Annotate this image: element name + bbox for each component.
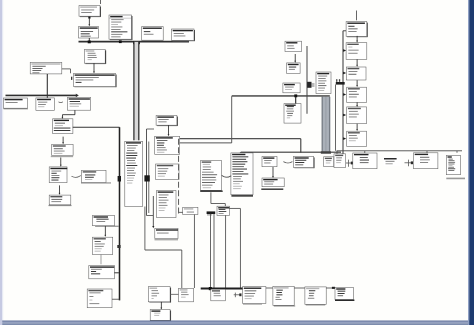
table box B44 — [293, 156, 314, 168]
arrow B27 to B28 — [356, 102, 358, 105]
wire: drop x300.8 to y152.5 — [300, 139, 302, 153]
arrow B5 to wide box W6 — [93, 63, 95, 72]
shadow under B15 — [4, 108, 28, 110]
wire: drop B2 to main bus — [88, 38, 90, 42]
dark shadow line under B63 rows — [335, 299, 354, 301]
shadow line under B37 — [155, 239, 179, 241]
table box B56 — [148, 287, 170, 303]
junction knot on bus at x120 — [119, 40, 122, 43]
arrow B9 to B10a — [294, 54, 296, 61]
table box B28 — [347, 107, 367, 124]
small dark box B40 — [207, 211, 216, 214]
arrowhead into B14 — [343, 72, 346, 75]
arrow B13 to B14 — [356, 60, 358, 66]
arrow B56 to B57 — [160, 302, 162, 308]
table box B18 — [53, 119, 73, 134]
shadow line under B51 — [446, 177, 465, 179]
table box B10b — [283, 83, 300, 93]
table box B31 — [82, 170, 107, 182]
table box B34 — [92, 237, 112, 254]
main bus horizontal line y41 — [79, 41, 190, 43]
bus horizontal line y95 left segment with arrow — [6, 94, 77, 96]
table box B54 — [89, 266, 115, 279]
table box B19 — [52, 144, 74, 155]
hook at left end of y152.2 wire — [239, 152, 241, 154]
second vertical wire x148.8 — [148, 142, 150, 214]
table box B29 — [347, 131, 367, 146]
table box B61 — [273, 286, 294, 305]
borderless text block B49 — [384, 158, 402, 167]
arrow B43 to B46 — [272, 167, 274, 177]
dark junction at bar bottom — [321, 151, 331, 154]
crow-foot connector into B42 left edge — [222, 175, 232, 177]
double vertical wires x134/x139 — [134, 42, 139, 141]
drop to B51 — [456, 151, 458, 153]
horizontal wire y150.8 for bottom-right row — [337, 150, 463, 152]
dark overlay segment of connector bar — [201, 288, 244, 290]
table box B41 — [217, 206, 229, 215]
arrow B12 to B13 — [356, 36, 358, 41]
left window edge strip — [0, 0, 2, 325]
elbow bottom of x146.5 wire — [147, 215, 154, 217]
table box B36 — [157, 191, 177, 218]
arrowhead into B13 — [343, 49, 346, 52]
junction knot on connector bar — [209, 287, 212, 290]
table box B16 — [36, 98, 54, 110]
arrow B28 to B29 — [356, 124, 358, 130]
table box B48 — [353, 153, 377, 169]
wire: B41 right to drop x240.4 — [229, 207, 240, 209]
wire: B20 bottom elbow to bottom row — [144, 207, 146, 251]
wire: x178.6 to B39 — [179, 211, 183, 213]
relation glyph between B30 and B31 — [72, 176, 81, 178]
wire: B17 bottom elbow to B18 — [74, 110, 76, 115]
grey double bar (thick vertical bus) — [322, 97, 330, 153]
long vertical wire x119.5 — [119, 127, 121, 300]
table box B46 — [262, 178, 284, 187]
table box B62 — [305, 287, 326, 304]
table box B37 dark title — [155, 228, 178, 238]
arrow to B37 — [152, 196, 154, 227]
table box B3 — [109, 15, 132, 40]
shadow line under B32 — [49, 205, 72, 207]
junction dot under B1 — [88, 17, 90, 19]
wire: elbow from B38 underline down and right to B41 top — [210, 192, 212, 203]
junction knot on bus at x295.5 — [294, 94, 297, 97]
tiny dark box B23 on wire — [307, 82, 311, 88]
wire: B33 bottom to vertical x118.5 — [95, 225, 118, 227]
relation glyph between B16 and B17 — [59, 101, 63, 104]
arrowhead into B28 — [343, 114, 346, 117]
tall table box B11 — [316, 72, 331, 94]
arrow B19 to B30 — [60, 158, 62, 166]
arrow B14 to B27 — [356, 80, 358, 85]
wire: B34 to B54 — [100, 255, 102, 265]
cardinality junction glyph left of B27 — [336, 82, 345, 85]
table box B15 — [3, 98, 27, 108]
knot on vertical x119.5 — [118, 176, 121, 182]
shadow line under B19 — [51, 156, 73, 158]
table box B1 — [79, 6, 101, 18]
shadow under B61 — [274, 305, 295, 307]
table box B27 — [347, 87, 367, 102]
table box B13 — [346, 43, 367, 60]
tall table box B20 — [125, 141, 143, 206]
left bracket vertical wire x343 — [342, 31, 344, 160]
arrowhead into B29 — [343, 137, 346, 140]
table box B51 — [446, 155, 460, 174]
table box B30 — [49, 167, 67, 183]
table box B35 — [156, 164, 179, 180]
table box B50 — [414, 153, 438, 169]
table box BB — [243, 287, 266, 304]
arrow B18 to B19 — [62, 137, 64, 143]
shadow line under B31 — [81, 182, 111, 184]
table box B63 — [335, 287, 353, 299]
table box B43 — [262, 157, 277, 167]
table box B17 — [67, 97, 90, 110]
arrowhead into B27 — [343, 93, 346, 96]
arrow B21 to B22 — [168, 125, 170, 134]
long drop wires to bottom row — [193, 215, 195, 289]
drop to B47 — [336, 151, 338, 154]
table box B39 — [183, 207, 198, 214]
table box B9 — [285, 41, 302, 51]
wire: B22 top-right long horizontal y138.7 — [180, 138, 301, 140]
table box B24 — [284, 104, 301, 124]
crow-foot bracket before B48 — [346, 162, 353, 164]
right window border navy strip — [468, 0, 469, 325]
vertical wire x146.5 — [146, 129, 148, 216]
knot on x146.5 wire — [144, 175, 149, 181]
crow-foot bracket before BB — [234, 294, 242, 296]
stub wire above B12 — [356, 11, 358, 21]
bottom row connector bar — [243, 287, 334, 289]
table box B14 — [346, 67, 366, 80]
table box B59 — [211, 289, 226, 301]
table box B55 — [87, 289, 112, 308]
shadow under B62 — [306, 304, 325, 306]
wire: B18 right to long vertical x119.5 — [73, 126, 120, 128]
wire: bus down into B24 — [295, 97, 297, 104]
wire: BT bottom down to bus y95 — [46, 74, 48, 95]
junction knot on bus at x89 — [88, 40, 91, 43]
table box B22 — [155, 136, 180, 154]
table box B12 — [346, 22, 367, 37]
table box B21 — [156, 116, 177, 127]
drop to B48 — [364, 151, 366, 153]
wire: B22 right elbow y142.9 up to bus y95.9 — [180, 142, 232, 144]
stub from bus down to B16 top — [46, 95, 48, 98]
table box B10a — [287, 63, 301, 74]
arrow B33 to B34 — [104, 226, 106, 235]
elbow top of x146.5 wire — [147, 128, 155, 130]
dark shadow line under B38 — [200, 190, 223, 192]
top edge stray tick — [100, 0, 102, 4]
vertical wire x335.5 down from junction — [335, 85, 337, 151]
table box B5 — [84, 49, 105, 64]
long vertical wire x178.6 (dashed) — [178, 139, 180, 214]
junction knot on bus at x134-139 — [133, 41, 140, 44]
tick from vertical x119.5 to box B55 — [111, 298, 119, 300]
dark shadow line under B46 — [261, 188, 283, 190]
table box B33 — [92, 215, 114, 225]
shadow under BB — [243, 303, 262, 305]
table box BA — [179, 288, 194, 302]
table box B7 — [142, 27, 164, 41]
table box B8 — [172, 29, 195, 41]
arrow B30 to B32 — [59, 185, 61, 193]
bottom window border strip — [2, 321, 474, 322]
wire B56 to BA — [170, 293, 179, 295]
tick B54 to vertical x118.5 — [114, 272, 118, 274]
table box B47 — [334, 154, 346, 168]
table box B38 — [201, 161, 222, 191]
tall table box B42 — [231, 153, 253, 195]
knot lower on vertical x119.5 — [117, 245, 120, 248]
dark shadow line under B42 — [231, 195, 253, 197]
arrow B1 to B2 — [88, 19, 90, 25]
table box BT (long title) — [30, 62, 62, 74]
table box B2 — [79, 27, 99, 39]
wire: BT right elbow to W6 top — [62, 68, 71, 70]
vertical wire x307 from B9 down — [306, 46, 308, 114]
bus horizontal line y95.9 right segment — [232, 95, 330, 97]
wide table box W6 — [73, 74, 116, 88]
table box B32 — [49, 195, 71, 205]
relation glyph between B49 and B50 — [405, 162, 414, 164]
one-cardinality tick at W6 left — [71, 77, 72, 80]
wire: horizontal y152.2 over to right — [241, 151, 341, 153]
relation glyph between B43 and B44 — [283, 162, 292, 163]
table box B57 dark title — [150, 310, 170, 322]
table box B45 — [324, 157, 334, 167]
drop to B50 — [426, 151, 428, 153]
tick before B63 — [332, 287, 335, 289]
